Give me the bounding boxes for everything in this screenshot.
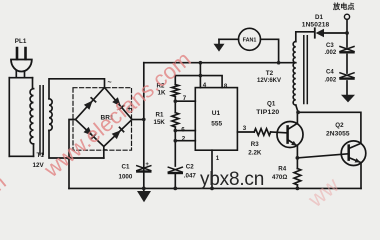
svg-text:8: 8 [224, 83, 228, 90]
wire bridge AC bottom lead [103, 147, 105, 159]
wire plug bottom return [9, 155, 33, 157]
pin 7 stub [175, 100, 195, 102]
wire D1 to discharge terminal [324, 32, 347, 34]
svg-text:6: 6 [181, 126, 185, 133]
svg-text:4: 4 [203, 82, 207, 89]
ground below C1 [143, 188, 145, 191]
diode BR1 top-left [84, 97, 97, 110]
wire bridge plus output [132, 119, 144, 121]
label R4 [272, 165, 287, 181]
svg-text:7: 7 [183, 95, 187, 102]
svg-text:放电点: 放电点 [332, 2, 355, 11]
watermark fragment bottom-right [302, 172, 343, 212]
wire bottom ground rail [69, 187, 361, 189]
svg-text:2.2K: 2.2K [248, 149, 262, 156]
pin 3 wire [237, 131, 254, 133]
op-amp U1 555 box [195, 88, 237, 151]
wire T1 primary bottom lead [33, 144, 35, 156]
svg-text:T1: T1 [37, 152, 45, 159]
svg-text:T2: T2 [266, 70, 274, 77]
wire FAN1 left lead [219, 38, 239, 40]
label T2 [257, 70, 281, 84]
wire +V vertical rail [143, 63, 145, 189]
svg-text:3: 3 [243, 125, 247, 132]
resistor R4 [296, 158, 298, 169]
svg-text:ybx8.cn: ybx8.cn [200, 169, 264, 190]
label bridge ~ top [108, 80, 112, 87]
motor FAN1 [239, 28, 261, 50]
diode BR1 top-right [112, 97, 125, 110]
pin 6 stub [175, 130, 195, 132]
pin labels [181, 82, 247, 162]
wire bridge minus to ground rail [69, 120, 76, 189]
svg-text:D1: D1 [315, 14, 323, 21]
svg-text:R1: R1 [156, 112, 164, 119]
wire top supply rail [144, 62, 296, 64]
capacitor C3 [340, 47, 354, 53]
label Q1 [256, 101, 279, 116]
svg-text:C4: C4 [326, 69, 334, 75]
transformer T2 primary winding [293, 42, 296, 106]
svg-text:Q2: Q2 [335, 122, 344, 129]
svg-text:.002: .002 [325, 50, 337, 56]
capacitor C1 [137, 166, 151, 172]
label BR1 [101, 114, 114, 121]
label C2 [184, 163, 197, 179]
resistor R2 [172, 85, 179, 97]
svg-text:R3: R3 [251, 141, 259, 148]
svg-text:15K: 15K [154, 119, 166, 126]
diode D1 [314, 28, 316, 37]
ground at FAN1 [218, 39, 220, 44]
svg-text:~: ~ [108, 80, 112, 87]
bridge rectifier BR1 dashed box [73, 88, 132, 151]
label C3 [325, 43, 337, 56]
svg-text:C3: C3 [326, 43, 334, 49]
svg-text:+: + [145, 162, 149, 168]
svg-text:2: 2 [182, 135, 186, 142]
svg-text:TIP120: TIP120 [256, 109, 279, 116]
label R2 [157, 83, 166, 97]
transistor Q1 [277, 122, 303, 148]
diode BR1 bottom-right [112, 126, 125, 139]
label PL1 [15, 38, 27, 45]
label bridge + [127, 104, 132, 113]
wire plug left conductor [8, 78, 10, 157]
watermark fragment bottom-left [0, 169, 11, 208]
svg-text:C2: C2 [186, 163, 194, 170]
capacitor C4 [340, 73, 354, 79]
capacitor C2 [168, 167, 182, 173]
wire T1 secondary top to bridge AC top [49, 79, 105, 99]
wire T2 winding bottom to collectors [296, 105, 298, 112]
transformer T1 secondary winding [49, 99, 52, 131]
ground below C4 [341, 95, 355, 103]
wire collector rail [298, 112, 361, 143]
pin 1 stub to ground rail [211, 150, 213, 188]
label C1 plus [145, 162, 149, 168]
svg-text:~: ~ [103, 147, 107, 154]
svg-text:2N3055: 2N3055 [326, 130, 350, 137]
wire plug right conductor to T1 primary top [33, 78, 34, 89]
svg-text:Q1: Q1 [267, 101, 276, 108]
svg-text:470Ω: 470Ω [272, 174, 287, 181]
wire pin4/8 supply drop [199, 63, 201, 88]
watermark www.elecfans.com [38, 46, 195, 182]
svg-text:C1: C1 [122, 163, 130, 170]
label Q2 [326, 122, 350, 137]
label T1 [33, 152, 45, 169]
wire pin8 branch [175, 76, 222, 88]
transformer T1 core [40, 86, 43, 155]
transformer T1 primary winding [30, 89, 33, 144]
wire R3 to Q1 base [271, 131, 288, 134]
svg-text:U1: U1 [212, 110, 221, 117]
label U1 [211, 110, 222, 128]
svg-text:12V:6KV: 12V:6KV [257, 78, 281, 84]
svg-text:FAN1: FAN1 [243, 38, 257, 44]
svg-text:555: 555 [211, 121, 222, 128]
wire FAN1 right lead [261, 39, 279, 62]
svg-text:R4: R4 [278, 165, 286, 172]
svg-text:1N50218: 1N50218 [302, 21, 330, 28]
svg-text:1000: 1000 [119, 174, 133, 181]
transformer T2 core [304, 36, 308, 104]
svg-text:PL1: PL1 [15, 38, 27, 45]
label R1 [154, 112, 166, 126]
label D1 [302, 14, 330, 28]
wire T1 secondary bottom (line A) [49, 131, 104, 159]
svg-text:1: 1 [216, 155, 220, 162]
wire timing chain vertical [174, 76, 176, 189]
pin 2 stub [175, 140, 195, 142]
label C1 [119, 163, 133, 180]
wire plug neck split [9, 77, 32, 79]
label C4 [325, 69, 337, 83]
resistor R1 [172, 113, 179, 127]
wire HV cap chain [346, 33, 348, 95]
label discharge point [332, 2, 355, 11]
svg-text:.047: .047 [184, 172, 197, 179]
bridge BR1 diamond [76, 88, 133, 147]
svg-text:.002: .002 [325, 77, 337, 83]
transistor Q2 [341, 141, 366, 166]
label bridge ~ bottom [103, 147, 107, 154]
plug PL1 [11, 48, 32, 78]
resistor R3 [254, 129, 270, 136]
wire T2 winding top lead [296, 32, 314, 42]
label R3 [248, 141, 262, 157]
discharge terminal node [344, 14, 349, 19]
diode BR1 bottom-left [83, 127, 96, 140]
wire Q1 emitter to Q2 base [297, 154, 348, 158]
